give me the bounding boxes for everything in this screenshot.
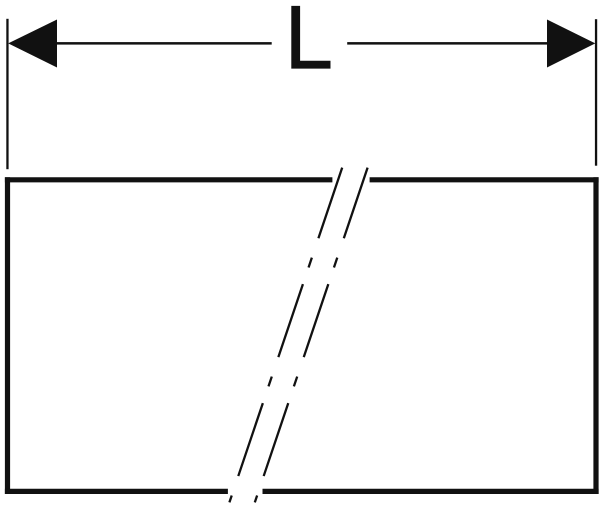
dimension line right segment <box>347 42 547 45</box>
pipe body top edge right segment <box>370 177 599 182</box>
left arrowhead <box>8 20 57 68</box>
dimension label L <box>291 6 330 69</box>
pipe body left edge <box>5 177 10 494</box>
dimension line left segment <box>55 42 272 45</box>
left extension line <box>6 19 8 169</box>
pipe body top edge left segment <box>5 177 333 182</box>
pipe body bottom edge right segment <box>263 489 599 494</box>
break line 1 (dash-dot) <box>229 168 342 503</box>
break line 2 (dash-dot) <box>255 168 368 503</box>
pipe body right edge <box>593 177 598 494</box>
right extension line <box>595 19 597 166</box>
pipe body bottom edge left segment <box>5 489 228 494</box>
right arrowhead <box>547 20 595 68</box>
